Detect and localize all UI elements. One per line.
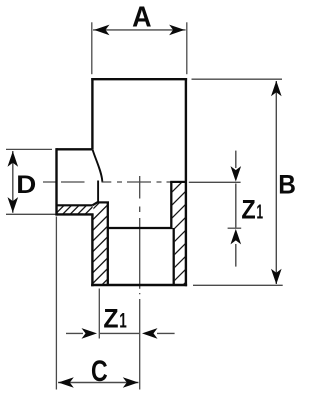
dim A arrowhead right bbox=[169, 25, 185, 36]
dim D extension line bottom bbox=[6, 213, 56, 215]
svg-text:A: A bbox=[132, 1, 151, 33]
dim B arrowhead bottom bbox=[271, 269, 282, 285]
dim C extension line left bbox=[55, 217, 57, 390]
dim Z1 right dimension line middle bbox=[235, 184, 237, 228]
right socket wall line lower bbox=[173, 228, 175, 285]
branch bore lower line (strip top) bbox=[57, 204, 93, 206]
centerline horizontal (branch axis) bbox=[43, 181, 177, 183]
junction bevel top line bbox=[98, 201, 109, 203]
dim B extension line top bbox=[192, 78, 283, 80]
fillet curve at branch junction bbox=[93, 149, 103, 181]
body left edge lower bbox=[91, 214, 93, 286]
svg-text:B: B bbox=[278, 171, 296, 200]
bore edge tick below fillet bbox=[97, 181, 99, 202]
dim A arrowhead left bbox=[94, 25, 110, 36]
socket shoulder line bbox=[108, 227, 173, 229]
hatch left bottom wall bar bbox=[85, 190, 112, 302]
dim D arrowhead top bbox=[8, 151, 19, 167]
dim D dimension line bbox=[12, 151, 14, 213]
body left edge upper bbox=[91, 78, 93, 149]
dim B dimension line bbox=[275, 81, 277, 284]
dim Z1 right up arrow bbox=[235, 244, 237, 267]
body top edge bbox=[91, 78, 187, 80]
dim Z1 right down arrow bbox=[235, 151, 237, 168]
dim D arrowhead bottom bbox=[8, 197, 19, 213]
dim Z1 bottom extension line bbox=[98, 289, 100, 339]
dim Z1 bottom left arrow bbox=[66, 332, 83, 334]
dim A extension line right bbox=[186, 22, 188, 74]
dim Z1 bottom right arrow bbox=[157, 332, 175, 334]
branch bottom edge bbox=[57, 213, 94, 215]
hatch branch lower wall strip bbox=[48, 199, 108, 221]
dim C arrowhead left bbox=[58, 377, 74, 388]
dim Z1 right extension line upper bbox=[189, 181, 241, 183]
svg-text:1: 1 bbox=[119, 309, 127, 333]
svg-text:1: 1 bbox=[256, 200, 263, 223]
dim B arrowhead top bbox=[271, 81, 282, 97]
body bottom edge bbox=[91, 284, 187, 286]
dim D extension line top bbox=[6, 148, 52, 150]
right bore wall line upper bbox=[170, 182, 172, 228]
svg-text:C: C bbox=[91, 354, 108, 387]
svg-text:D: D bbox=[16, 170, 36, 198]
svg-text:Z: Z bbox=[103, 303, 118, 334]
dim Z1 right extension line lower bbox=[228, 227, 242, 229]
branch end face bbox=[55, 148, 57, 216]
hatch right wall bar bbox=[165, 172, 192, 303]
centerline vertical (run axis) bbox=[139, 176, 141, 390]
dim A dimension line bbox=[93, 29, 186, 31]
dim A extension line left bbox=[91, 22, 93, 74]
right bar top edge bbox=[170, 181, 186, 183]
bore left wall line bbox=[107, 202, 109, 285]
junction bevel diagonal bbox=[93, 202, 98, 205]
branch top edge bbox=[57, 148, 93, 150]
body right edge bbox=[185, 78, 187, 286]
dim B extension line bottom bbox=[193, 284, 283, 286]
dim C arrowhead right bbox=[123, 377, 139, 388]
dim C dimension line bbox=[58, 382, 139, 384]
dim Z1 bottom dimension line middle bbox=[100, 332, 139, 334]
svg-text:Z: Z bbox=[241, 195, 255, 225]
